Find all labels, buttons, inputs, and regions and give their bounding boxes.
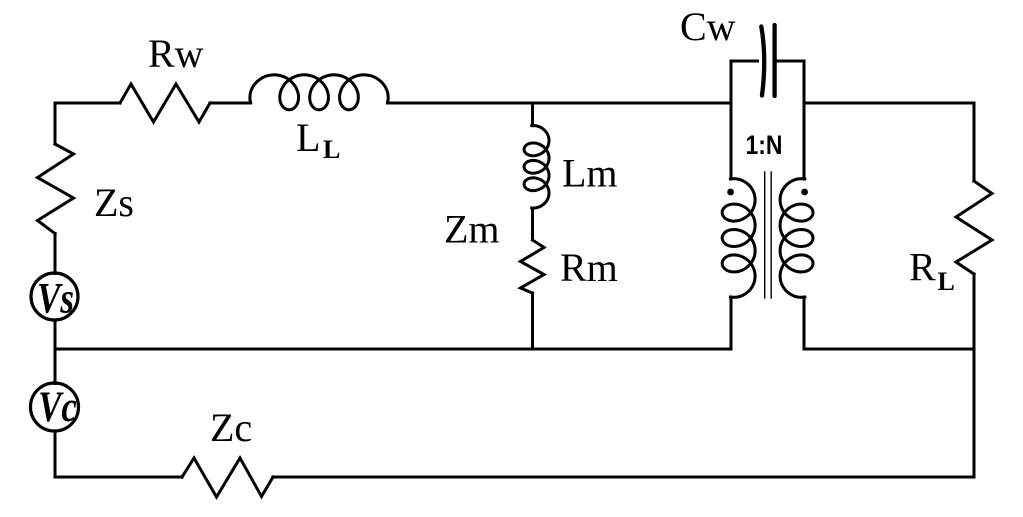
svg-text:Cw: Cw xyxy=(680,4,736,49)
capacitor Cw top wires xyxy=(731,60,758,63)
transformer T1 right leg upper xyxy=(803,61,806,179)
label RL xyxy=(909,245,955,297)
wire RL to bottom right corner xyxy=(973,274,976,477)
source Vc xyxy=(31,383,79,431)
inductor Lm xyxy=(524,126,549,209)
svg-text:Rw: Rw xyxy=(148,31,204,76)
wire T1 secondary bottom to middle bus xyxy=(803,297,806,349)
svg-text:R: R xyxy=(909,245,936,290)
svg-text:L: L xyxy=(938,267,955,296)
transformer T1 left leg upper xyxy=(730,61,733,179)
source Vs xyxy=(31,273,78,323)
svg-text:Lm: Lm xyxy=(562,151,618,196)
resistor Zc xyxy=(182,458,273,497)
wire middle bus right xyxy=(804,348,974,351)
svg-text:Vc: Vc xyxy=(38,384,77,431)
capacitor Cw plates xyxy=(761,25,774,96)
transformer T1 core xyxy=(765,172,772,298)
resistor Rm xyxy=(521,240,545,293)
svg-text:Zs: Zs xyxy=(94,180,134,225)
resistor RL xyxy=(956,181,992,274)
svg-text:L: L xyxy=(323,135,340,164)
wire bottom bus right xyxy=(273,476,974,479)
wire top right of LL to transformer xyxy=(388,102,732,105)
wire T1 primary bottom to middle bus xyxy=(730,297,733,349)
wire middle bus left xyxy=(55,348,731,351)
wire top left horizontal xyxy=(55,102,120,105)
wire Zs to Vs xyxy=(54,234,57,274)
svg-text:Vs: Vs xyxy=(37,276,74,323)
node junction Zm branch top xyxy=(531,103,534,126)
resistor Rw xyxy=(120,84,210,122)
svg-text:L: L xyxy=(296,115,320,160)
wire Vs to middle bus xyxy=(54,320,57,384)
transformer T1 secondary winding xyxy=(780,179,813,298)
transformer T1 primary winding xyxy=(722,179,755,298)
svg-text:1:N: 1:N xyxy=(746,130,783,160)
svg-text:Zc: Zc xyxy=(210,405,252,450)
wire Rm to middle bus xyxy=(531,293,534,349)
wire Vc to bottom bus xyxy=(55,431,182,477)
wire left vertical top xyxy=(54,103,57,144)
label LL xyxy=(296,115,340,164)
resistor Zs xyxy=(38,144,74,234)
transformer T1 dot primary xyxy=(727,189,734,196)
wire top right to RL xyxy=(804,103,974,181)
svg-text:Zm: Zm xyxy=(444,207,500,252)
svg-text:Rm: Rm xyxy=(560,245,618,290)
wire between Rw and LL xyxy=(210,102,251,105)
wire Lm to Rm xyxy=(531,208,534,240)
transformer T1 dot secondary xyxy=(801,189,808,196)
inductor LL xyxy=(250,75,388,110)
